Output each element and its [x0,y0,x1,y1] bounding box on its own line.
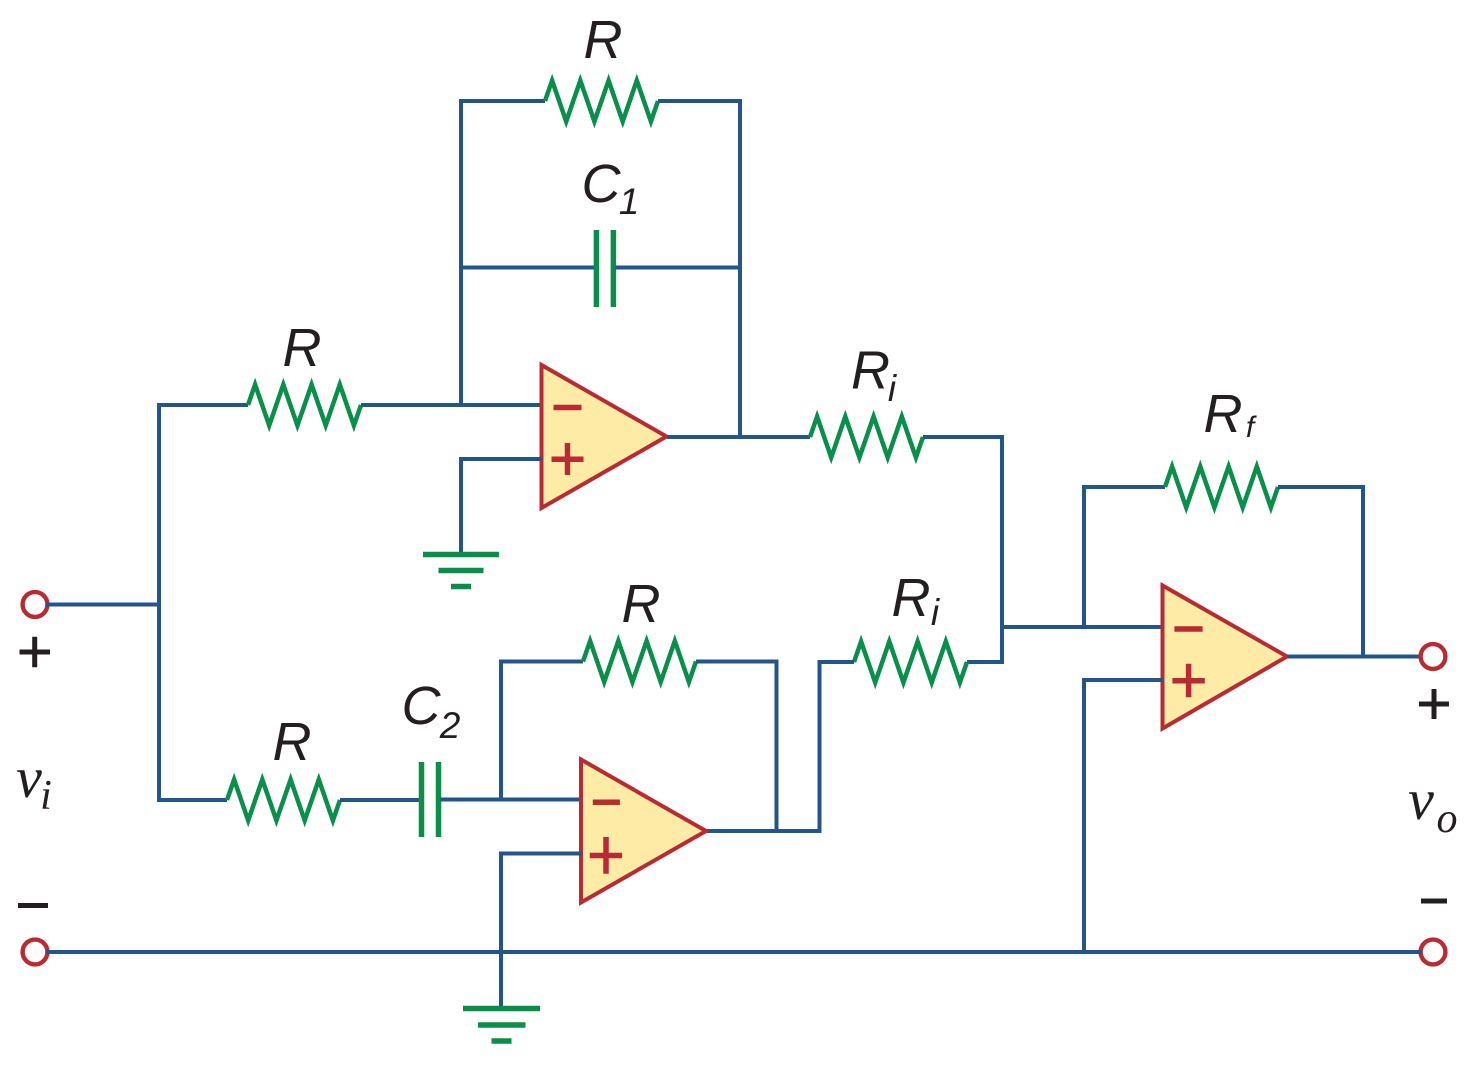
node A vertical wire [157,403,161,800]
wire U2 output riser [818,660,822,831]
resistor R (bottom input) [227,780,340,821]
ground U1 [423,555,499,587]
bottom rail wire [46,950,1422,954]
wire node B to U3 inverting input [1002,625,1163,629]
svg-text:v: v [16,745,42,810]
wire U2 feedback top left [499,660,583,664]
label + (input) [20,637,51,668]
label C1 [582,154,640,222]
svg-text:C: C [582,154,622,214]
wire C1 left [461,266,594,270]
svg-text:C: C [402,676,442,736]
svg-text:R: R [283,318,322,378]
terminal input minus [23,940,48,965]
node B vertical wire [1000,435,1004,664]
wire U2 feedback top right [696,660,779,664]
terminal output plus [1421,644,1446,669]
terminal output minus [1421,940,1446,965]
label minus (output) [1421,899,1447,904]
op-amp U2 [581,760,706,903]
svg-text:i: i [40,773,52,819]
svg-text:1: 1 [619,181,640,222]
wire U1 output [667,435,810,439]
label Ri (lower) [892,568,941,633]
resistor Ri (lower) [854,642,967,683]
wire feedback top left [459,99,545,103]
capacitor C2 [422,762,439,837]
wire U2 output [706,829,822,833]
resistor Ri (upper) [810,417,923,458]
svg-text:o: o [1437,796,1458,842]
wire feedback right vertical [738,99,742,437]
wire R to U1 inverting input [361,403,542,407]
svg-text:2: 2 [439,705,461,746]
svg-text:R: R [584,10,623,70]
wire Rf top right [1278,485,1365,489]
wire feedback top right [658,99,742,103]
wire R to C2 [340,798,420,802]
terminal input plus [23,592,48,617]
svg-text:R: R [622,574,661,634]
wire U2 feedback right vertical [775,660,779,832]
wire U1 feedback left vertical [459,99,463,405]
svg-text:R: R [273,712,312,772]
svg-text:v: v [1408,767,1434,832]
resistor R (U2 feedback) [583,641,696,682]
op-amp U3 [1163,586,1288,729]
label Rf [1204,384,1257,444]
wire Ri lower right stub [967,660,1004,664]
resistor R (U1 feedback) [545,81,658,122]
label vi [16,745,52,819]
wire U2 feedback left vertical [499,660,503,800]
label Ri (upper) [851,341,898,410]
wire U3 noninverting input [1084,678,1163,954]
wire Rf left vertical [1082,485,1086,627]
wire node A to R top branch [157,403,248,407]
svg-text:R: R [892,568,931,628]
wire U1 noninverting input [461,457,542,554]
label + (output) [1419,689,1449,719]
op-amp U1 [542,365,667,508]
wire Rf right vertical [1361,485,1365,657]
wire U3 output [1287,655,1422,659]
wire node A to bottom R [157,798,227,802]
label C2 [402,676,461,746]
wire Rf top left [1082,485,1165,489]
wire Ri lower left stub [818,660,855,664]
wire U2 noninverting input [501,852,582,1009]
svg-text:R: R [1204,384,1243,444]
resistor R (top input) [248,385,361,426]
wire Ri to node B [923,435,1004,439]
wire C1 right [616,266,741,270]
label minus (input) [18,903,48,908]
capacitor C1 [596,230,613,307]
ground U2 [463,1009,540,1042]
label vo [1408,767,1457,842]
svg-text:R: R [851,341,890,401]
wire C2 to U2 inverting input [441,798,583,802]
wire input plus to node A [46,603,159,607]
resistor Rf [1165,467,1278,508]
